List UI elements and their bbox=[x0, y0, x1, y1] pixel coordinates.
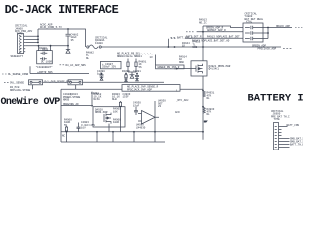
crystal contacts row3 bbox=[245, 37, 263, 41]
dashed net BATT row bbox=[171, 37, 176, 39]
resistor R4903 bbox=[113, 108, 121, 114]
net labels battery bbox=[287, 124, 308, 147]
resistor R4913 label bbox=[193, 41, 201, 49]
svg-text:DC 100R: DC 100R bbox=[41, 61, 52, 64]
svg-text:NOPLACE-STOWE: NOPLACE-STOWE bbox=[10, 89, 31, 92]
resistor R4906 bbox=[113, 118, 121, 124]
connector J6900 pins bbox=[275, 127, 277, 148]
svg-text:DC-JACK INTERFACE: DC-JACK INTERFACE bbox=[5, 3, 119, 17]
svg-text:ADPDET_ADP_R: ADPDET_ADP_R bbox=[207, 29, 226, 32]
svg-text:NOB: NOB bbox=[179, 61, 184, 64]
wire BATT_DET bbox=[185, 37, 243, 39]
wire ADPDET bbox=[197, 31, 243, 33]
wire drop from BATT_DET to rail bbox=[167, 39, 169, 47]
transistor Q4920 label bbox=[95, 108, 108, 114]
svg-text:+ADPTR_SNS: +ADPTR_SNS bbox=[37, 71, 53, 74]
cap C4920 label bbox=[63, 93, 81, 101]
svg-text:_NTC_ADJ: _NTC_ADJ bbox=[176, 99, 189, 102]
svg-text:OVL_SENSE: OVL_SENSE bbox=[10, 81, 24, 84]
junction dot at C4882 top bbox=[67, 28, 69, 30]
svg-text:NOB: NOB bbox=[193, 46, 198, 49]
svg-text:NO_IC: NO_IC bbox=[199, 21, 207, 24]
capacitor C4882 label bbox=[71, 33, 79, 41]
svg-text:F4800: F4800 bbox=[95, 42, 103, 45]
OVP sense row dashes bbox=[4, 81, 9, 83]
svg-text:Q4(34C): Q4(34C) bbox=[209, 67, 220, 71]
transistor Q4921 label bbox=[209, 65, 231, 71]
net label left dashes bbox=[2, 73, 7, 75]
svg-text:NLB: NLB bbox=[112, 98, 117, 101]
transistor Q4880 label bbox=[39, 47, 49, 51]
svg-text:PMOS: PMOS bbox=[42, 48, 49, 51]
connector J6900 label block bbox=[271, 110, 290, 121]
fuse F4800 bbox=[87, 46, 89, 48]
svg-text:BATT_TH_R: BATT_TH_R bbox=[290, 144, 303, 147]
svg-text:TYPE: TYPE bbox=[274, 118, 281, 121]
wire gate bbox=[177, 68, 191, 70]
svg-text:OL_SENSE_CONN: OL_SENSE_CONN bbox=[8, 73, 29, 76]
svg-text:NL5A: NL5A bbox=[94, 98, 101, 101]
resistor R4914 label bbox=[179, 55, 187, 63]
svg-text:10K: 10K bbox=[113, 110, 118, 113]
label block R4913 top bbox=[199, 19, 207, 25]
svg-text:35: 35 bbox=[71, 39, 75, 42]
wire drop to rail bbox=[202, 26, 204, 61]
main rail ACDC bbox=[102, 46, 282, 48]
wire ADPTR_SNS bbox=[30, 66, 89, 73]
transistor Q4921 box bbox=[191, 61, 207, 76]
transistor Q4920 box bbox=[93, 107, 125, 127]
svg-text:15pF: 15pF bbox=[133, 104, 140, 107]
crystal Y4800 label block bbox=[245, 12, 264, 23]
comparator label bbox=[136, 124, 146, 130]
fuse F4800 label bbox=[95, 36, 108, 44]
junction dot rail bbox=[174, 46, 176, 48]
connector J4800 label block bbox=[15, 25, 33, 36]
svg-text:NL: NL bbox=[207, 113, 211, 116]
crystal contacts row1 bbox=[245, 26, 263, 30]
RC pair to ground bbox=[122, 70, 141, 73]
capacitor C4882 bbox=[66, 29, 71, 46]
crystal Y4800 box bbox=[243, 23, 263, 42]
connector J4800 body bbox=[18, 34, 24, 54]
wire ONEWIRE bbox=[61, 105, 93, 107]
crystal contacts row2 bbox=[245, 31, 263, 35]
svg-text:16V: 16V bbox=[81, 127, 86, 130]
connector J6900 body bbox=[274, 123, 279, 151]
resistor R4892 bbox=[135, 59, 137, 73]
transistor Q4880 box bbox=[37, 51, 53, 64]
svg-text:153F: 153F bbox=[123, 96, 130, 99]
svg-text:BATT_CON: BATT_CON bbox=[287, 124, 300, 127]
svg-text:23: 23 bbox=[158, 105, 162, 108]
connector J6900 wires bbox=[282, 127, 290, 148]
bottom labels row bbox=[62, 134, 66, 137]
net stubs on frame edge bbox=[175, 89, 189, 113]
capacitor inside Q4880 bbox=[40, 57, 47, 60]
svg-text:LM4930: LM4930 bbox=[136, 126, 146, 129]
svg-text:ORACD_ADP: ORACD_ADP bbox=[276, 25, 290, 28]
wire OVP row bbox=[43, 81, 164, 83]
transistor Q4880 symbol bbox=[41, 52, 48, 55]
svg-text:PPDCJACK_ADP: PPDCJACK_ADP bbox=[258, 48, 277, 51]
svg-text:1K: 1K bbox=[182, 45, 186, 48]
ground stubs bbox=[67, 132, 204, 142]
resistor R4903 top bbox=[112, 93, 120, 101]
wire to crystal row1 bbox=[203, 26, 243, 28]
OVP block frame bbox=[61, 89, 203, 142]
fuse value label bbox=[86, 51, 94, 59]
svg-text:P/L_OVP_SENSE_R4A: P/L_OVP_SENSE_R4A bbox=[45, 80, 72, 84]
wire right column bbox=[154, 101, 156, 132]
rail end dashes bbox=[283, 48, 291, 50]
net label ACDC_ADP bbox=[40, 23, 62, 29]
resistor cluster labels bbox=[139, 60, 147, 68]
label GREEN_PB_INT_R bbox=[155, 55, 157, 66]
wire gnd row from pin4 bbox=[25, 45, 68, 47]
svg-text:R4913 NOPLACE_BAT_DET: R4913 NOPLACE_BAT_DET bbox=[207, 36, 240, 39]
wire bus vertical bbox=[37, 29, 39, 43]
svg-text:13: 13 bbox=[150, 56, 154, 59]
transistor Q4920 symbol bbox=[104, 113, 111, 132]
capacitor C4930 bbox=[133, 102, 141, 108]
RC filter cap C4890 bbox=[97, 70, 105, 76]
svg-text:NRB10/Beta NRB11: NRB10/Beta NRB11 bbox=[117, 54, 142, 58]
resistor R4912 bbox=[94, 93, 102, 101]
transistor Q4921 source wire bbox=[202, 76, 204, 133]
wire gate drop bbox=[91, 92, 93, 107]
junction dots on bus bbox=[37, 35, 39, 43]
svg-text:5%: 5% bbox=[139, 66, 143, 69]
capacitor C4903 bbox=[81, 121, 95, 129]
svg-text:*C4880RA0T*: *C4880RA0T* bbox=[36, 65, 54, 69]
svg-text:S1RE007T: S1RE007T bbox=[11, 55, 24, 58]
wire ACDC top rail bbox=[38, 29, 86, 47]
wire pin bus bbox=[25, 36, 38, 42]
svg-text:BATTERY IN: BATTERY IN bbox=[248, 92, 304, 104]
connector J4800 pins bbox=[19, 35, 21, 53]
svg-text:5%: 5% bbox=[64, 124, 68, 127]
ground for divider bbox=[128, 72, 136, 78]
resistor R4900 bbox=[64, 118, 72, 126]
resistor R4944 label bbox=[182, 42, 190, 48]
resistor R4931 bbox=[207, 92, 215, 100]
bulk cap C4907 box bbox=[101, 61, 122, 68]
note NO_PLACE_PB_SEL bbox=[117, 52, 153, 58]
svg-text:R4_AC_ADP_SNS: R4_AC_ADP_SNS bbox=[66, 64, 87, 67]
capacitor C4933 top bbox=[123, 93, 131, 99]
svg-text:NL: NL bbox=[86, 57, 90, 60]
jumper box R4910 bbox=[29, 80, 43, 85]
svg-text:330uF 35V: 330uF 35V bbox=[102, 66, 116, 69]
note box NO_PLACE_OVP_SENSE bbox=[122, 85, 180, 92]
jumper box R4911 bbox=[68, 80, 83, 85]
junction dot gnd bbox=[67, 45, 69, 47]
comparator U4930 bbox=[138, 111, 159, 125]
net stub dashes right of Q4880 bbox=[60, 64, 65, 66]
crystal right bus bbox=[263, 28, 292, 39]
svg-text:NC: NC bbox=[62, 134, 66, 137]
resistor R4891 bbox=[127, 59, 129, 73]
IC label right bbox=[158, 100, 166, 108]
stub verticals bbox=[33, 85, 76, 89]
svg-text:NMOS: NMOS bbox=[63, 99, 70, 102]
wire taps to Q4880 bbox=[39, 46, 51, 51]
transistor Q4921 symbol bbox=[191, 64, 203, 74]
svg-text:BATT_DET_R: BATT_DET_R bbox=[186, 36, 202, 39]
svg-text:ONEWIRE_AD: ONEWIRE_AD bbox=[63, 103, 79, 106]
note text under row bbox=[10, 86, 31, 92]
svg-text:NL: NL bbox=[207, 97, 211, 100]
bottom rail bbox=[61, 131, 203, 133]
svg-text:100K: 100K bbox=[113, 121, 120, 124]
resistor R4933 bbox=[207, 108, 215, 116]
svg-text:OneWire OVP: OneWire OVP bbox=[1, 96, 61, 108]
ground symbol bbox=[66, 46, 70, 53]
svg-text:ACD: ACD bbox=[175, 111, 180, 114]
net flag at source bbox=[204, 121, 208, 123]
svg-text:PPDCJACK_OVP_ADP: PPDCJACK_OVP_ADP bbox=[127, 88, 152, 91]
